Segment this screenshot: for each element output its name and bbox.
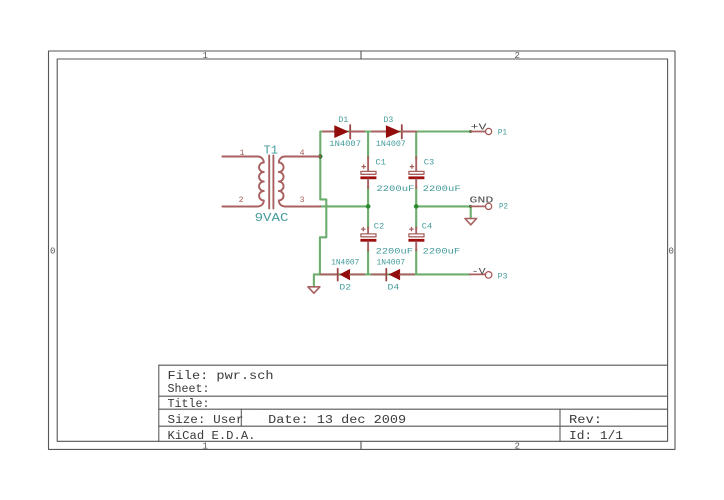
svg-text:+V: +V <box>471 123 488 133</box>
svg-text:Date: 13 dec 2009: Date: 13 dec 2009 <box>268 414 406 427</box>
port P2 GND <box>471 203 492 209</box>
capacitor C4 <box>408 227 424 250</box>
svg-text:GND: GND <box>469 196 493 206</box>
capacitor C3 <box>408 157 424 188</box>
svg-text:File: pwr.sch: File: pwr.sch <box>168 370 274 383</box>
svg-text:D1: D1 <box>339 116 349 125</box>
svg-text:2: 2 <box>515 442 520 452</box>
svg-text:KiCad E.D.A.: KiCad E.D.A. <box>168 430 256 443</box>
diode D3 <box>372 125 416 139</box>
svg-text:0: 0 <box>50 247 55 257</box>
diode D4 <box>372 269 414 281</box>
sheet outer border <box>49 51 676 449</box>
wire C3 vertical <box>415 132 417 159</box>
border tick top <box>360 51 362 59</box>
svg-text:1N4007: 1N4007 <box>329 140 361 149</box>
svg-text:2200uF: 2200uF <box>376 248 414 257</box>
svg-text:2200uF: 2200uF <box>376 185 414 194</box>
svg-text:P2: P2 <box>499 202 508 211</box>
svg-text:C1: C1 <box>376 159 387 168</box>
svg-text:2200uF: 2200uF <box>423 248 461 257</box>
diode D2 <box>321 269 365 281</box>
svg-text:C4: C4 <box>422 222 433 231</box>
transformer T1 <box>222 156 320 209</box>
diode D1 <box>323 125 364 139</box>
wire C4 vertical <box>415 206 417 228</box>
svg-text:2200uF: 2200uF <box>423 185 461 194</box>
wire jog pin4 to bottom <box>320 199 326 274</box>
svg-text:1N4007: 1N4007 <box>376 140 406 149</box>
junction C1-gnd <box>366 204 371 209</box>
svg-text:C2: C2 <box>374 222 385 231</box>
svg-text:Size: User: Size: User <box>168 414 244 427</box>
svg-text:Title:: Title: <box>168 398 210 411</box>
svg-text:P3: P3 <box>498 273 508 282</box>
wire ground stub bottom-left <box>313 274 315 286</box>
svg-text:Id: 1/1: Id: 1/1 <box>569 430 623 443</box>
ground symbol at gnd port <box>465 219 477 225</box>
svg-text:3: 3 <box>300 196 305 205</box>
svg-text:2: 2 <box>515 51 520 61</box>
svg-text:1N4007: 1N4007 <box>331 259 359 268</box>
capacitor C2 <box>360 227 376 250</box>
junction +V <box>469 130 472 133</box>
junction pin4 <box>318 154 322 158</box>
port P3 -V <box>470 272 492 279</box>
svg-text:9VAC: 9VAC <box>255 212 289 225</box>
junction C3-gnd <box>414 204 419 209</box>
svg-text:-V: -V <box>472 267 487 277</box>
svg-text:T1: T1 <box>264 145 279 158</box>
title block frame <box>159 365 668 441</box>
border tick bottom <box>360 441 362 449</box>
svg-text:D4: D4 <box>388 284 400 293</box>
capacitor C1 <box>360 157 376 188</box>
svg-text:2: 2 <box>239 196 244 205</box>
wire C1 vertical <box>367 132 369 159</box>
wire gnd rail right <box>415 205 471 207</box>
wire gnd rail left <box>321 205 370 207</box>
ground symbol bottom-left <box>308 287 320 293</box>
svg-text:1: 1 <box>203 442 208 452</box>
svg-text:4: 4 <box>300 149 305 158</box>
svg-text:P1: P1 <box>498 129 508 138</box>
svg-text:1N4007: 1N4007 <box>377 259 406 268</box>
wire top rail <box>320 132 470 200</box>
port P1 +V <box>471 128 492 134</box>
wire bottom rail <box>314 273 470 275</box>
wire gnd port stub <box>470 206 472 218</box>
wire C2 vertical <box>367 206 369 228</box>
svg-text:D3: D3 <box>384 116 394 125</box>
svg-text:0: 0 <box>669 247 674 257</box>
svg-text:D2: D2 <box>339 284 351 293</box>
svg-text:1: 1 <box>240 149 245 158</box>
svg-text:1: 1 <box>203 51 208 61</box>
junction gnd port <box>469 205 472 208</box>
svg-text:Sheet:: Sheet: <box>168 383 210 396</box>
svg-text:C3: C3 <box>424 159 435 168</box>
sheet inner border <box>57 59 667 441</box>
svg-text:Rev:: Rev: <box>569 414 602 427</box>
